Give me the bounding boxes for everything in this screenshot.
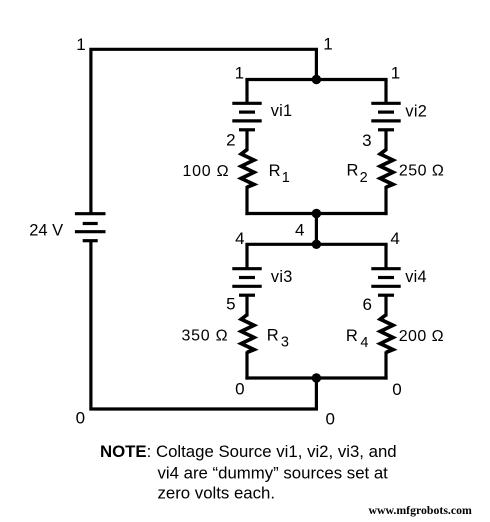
- wire junction stub between mid rails: [315, 214, 318, 245]
- junction dot node 0: [312, 373, 321, 382]
- wire vi4 - terminal to R4 top (node 6): [384, 295, 387, 316]
- wire upper-section bottom rail: [245, 212, 387, 215]
- resistor R2 zigzag: [380, 150, 393, 188]
- svg-text:4: 4: [295, 221, 304, 240]
- svg-text:vi4 are “dummy” sources set at: vi4 are “dummy” sources set at: [158, 463, 389, 482]
- wire node 4 rail to vi4 top plate: [384, 244, 387, 269]
- resistor R3 zigzag: [241, 315, 254, 353]
- wire node 1 horizontal rail: [245, 78, 387, 81]
- svg-text:vi1: vi1: [271, 102, 293, 120]
- svg-text:vi4: vi4: [405, 268, 427, 286]
- wire bottom return to 24V battery - terminal: [91, 241, 318, 409]
- wire vi1 - terminal to R1 top (node 2): [245, 130, 248, 151]
- battery V1 24 V plates: [75, 214, 106, 241]
- junction dot upper-mid: [312, 209, 321, 218]
- wire R4 bottom to node 0 rail: [384, 351, 387, 379]
- svg-text:24 V: 24 V: [29, 222, 63, 240]
- wire node 0 horizontal rail: [245, 376, 387, 379]
- wire R3 bottom to node 0 rail: [245, 351, 248, 379]
- svg-text:0: 0: [76, 409, 85, 428]
- svg-text:250 Ω: 250 Ω: [399, 163, 444, 180]
- svg-text:1: 1: [323, 35, 332, 54]
- junction dot node 4: [312, 240, 321, 249]
- battery voltage source vi3 plates: [232, 269, 261, 296]
- svg-text:0: 0: [325, 410, 334, 429]
- wire node 0 rail down to bottom return wire: [315, 378, 318, 409]
- wire vi3 - terminal to R3 top (node 5): [245, 295, 248, 316]
- svg-text:1: 1: [235, 64, 244, 83]
- battery voltage source vi2 plates: [371, 103, 400, 130]
- resistor R1 zigzag: [241, 150, 254, 188]
- wire from 24V battery + terminal up and across top to node 1 column: [91, 49, 317, 213]
- wire node 1 rail to vi1 top plate: [245, 80, 248, 105]
- svg-text:350 Ω: 350 Ω: [181, 327, 228, 344]
- wire node 4 horizontal rail: [245, 243, 387, 246]
- wire node 4 rail to vi3 top plate: [245, 244, 248, 269]
- svg-text:NOTE: Coltage Source vi1, vi2,: NOTE: Coltage Source vi1, vi2, vi3, and: [100, 442, 397, 461]
- wire R1 bottom to upper-section bottom rail: [245, 186, 248, 215]
- battery voltage source vi1 plates: [232, 103, 261, 130]
- svg-text:5: 5: [226, 295, 235, 314]
- battery voltage source vi4 plates: [371, 269, 400, 296]
- svg-text:2: 2: [226, 131, 235, 150]
- svg-text:0: 0: [235, 380, 244, 399]
- resistor R4 zigzag: [380, 315, 393, 353]
- junction dot node 1: [312, 75, 321, 84]
- svg-text:4: 4: [390, 229, 399, 248]
- svg-text:1: 1: [76, 35, 85, 54]
- svg-text:100 Ω: 100 Ω: [182, 163, 229, 180]
- wire R2 bottom to upper-section bottom rail: [384, 186, 387, 215]
- svg-text:vi3: vi3: [271, 268, 293, 286]
- svg-text:200 Ω: 200 Ω: [399, 328, 444, 345]
- svg-text:0: 0: [392, 380, 401, 399]
- svg-text:4: 4: [235, 229, 244, 248]
- svg-text:6: 6: [362, 295, 371, 314]
- svg-text:zero volts each.: zero volts each.: [158, 484, 276, 503]
- svg-text:www.mfgrobots.com: www.mfgrobots.com: [369, 503, 472, 517]
- svg-text:vi2: vi2: [405, 102, 427, 120]
- svg-text:3: 3: [362, 131, 371, 150]
- svg-text:1: 1: [391, 64, 400, 83]
- wire vi2 - terminal to R2 top (node 3): [384, 130, 387, 151]
- wire node 1 rail to vi2 top plate: [384, 80, 387, 105]
